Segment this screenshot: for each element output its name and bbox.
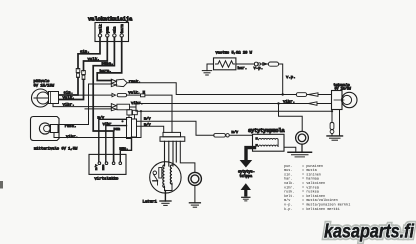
svg-text:valk: valk (98, 24, 103, 33)
wire laturi to ground (164, 191, 166, 202)
svg-text:päävalo: päävalo (34, 79, 51, 84)
ground at spark plug (242, 197, 250, 201)
wire puna. from switch t3 down to virtalukko (93, 37, 114, 161)
scan mark left edge (0, 181, 3, 189)
svg-text:m/v: m/v (144, 122, 151, 127)
svg-text:valokatkaisija: valokatkaisija (88, 16, 133, 23)
junction dot m/v (121, 120, 123, 122)
bullet connector on sin wire (76, 69, 80, 78)
wire harm. from switch t4 to junction connector (97, 37, 122, 80)
wire rusk. from mittarivalo up to junction connector (58, 84, 111, 125)
terminal 1 of valokatkaisija (98, 24, 103, 37)
svg-text:rusk.: rusk. (129, 79, 141, 84)
svg-text:vastus 5,9Ω 20 W: vastus 5,9Ω 20 W (216, 51, 253, 55)
svg-text:pun: pun (114, 128, 121, 132)
ground wire line3 to right (137, 110, 332, 112)
svg-text:= keltainen merkki: = keltainen merkki (302, 207, 340, 212)
svg-text:kasaparts.fi: kasaparts.fi (324, 222, 415, 243)
wire valk. from switch t2 to headlight (84, 37, 108, 70)
svg-text:har.: har. (238, 66, 248, 71)
svg-text:6V 15/15W: 6V 15/15W (34, 84, 55, 89)
spark plug arrow up (241, 183, 251, 190)
junction dot line3 takavalo (331, 110, 333, 112)
ground at laturi (160, 201, 171, 205)
svg-text:= ruskea: = ruskea (302, 190, 319, 195)
svg-text:puna.: puna. (102, 63, 114, 67)
connector arrow vihr takavalo (309, 102, 318, 106)
tail light takavalo (332, 83, 357, 110)
light switch box valokatkaisija (88, 16, 133, 42)
wire resistor to ground (207, 64, 214, 71)
wire takavalo to ground line (331, 110, 333, 123)
wire kill switch to ground (194, 185, 196, 202)
wire laturi to kill switch 1 (180, 141, 195, 172)
svg-text:Laturi: Laturi (143, 200, 158, 205)
generator laturi (143, 162, 182, 205)
svg-text:harm: harm (120, 24, 125, 33)
coil 1 inside laturi (163, 165, 165, 187)
junction connector rusk row (111, 79, 127, 86)
ignition switch virtalukko (89, 154, 126, 181)
svg-text:vihr.: vihr. (284, 185, 295, 190)
svg-text:m/v: m/v (144, 116, 151, 121)
svg-text:sin.: sin. (64, 91, 74, 96)
svg-text:k-p.: k-p. (284, 207, 292, 212)
watermark kasaparts.fi (324, 222, 415, 243)
svg-text:m/v: m/v (232, 130, 239, 135)
second vihr input stub (85, 108, 111, 110)
connector block to virtalukko (127, 115, 137, 139)
generator connector bar (160, 132, 185, 141)
wire m/v2 from block to generator bar (137, 126, 164, 132)
svg-text:tulppa: tulppa (240, 174, 253, 179)
svg-text:sin.: sin. (80, 50, 90, 55)
resistor vastus (214, 51, 253, 70)
bullet connector m/v at coil (214, 134, 230, 138)
svg-text:vihr.: vihr. (63, 103, 75, 108)
svg-text:vihr: vihr (103, 122, 112, 127)
coil 2 inside laturi (170, 165, 172, 184)
svg-text:= musta/punaisen merkki: = musta/punaisen merkki (302, 203, 350, 208)
ground at kill switch (189, 203, 200, 207)
svg-text:m/v: m/v (284, 198, 290, 203)
junction dot v.p. (282, 93, 284, 95)
wire vihr row output (130, 106, 137, 108)
wire valk E to generator bar (127, 94, 141, 96)
svg-text:= vihreä: = vihreä (302, 185, 319, 190)
svg-text:v.p.: v.p. (286, 76, 296, 80)
svg-text:= keltainen: = keltainen (302, 194, 325, 199)
wire vihr. from headlight to connector row (53, 104, 111, 107)
bullet connector at takavalo ground (330, 123, 334, 134)
wire m/v from block to virtalukko t1 (99, 119, 127, 161)
HT lead thick elbow to spark plug (246, 148, 255, 161)
junction dot vihr mittarivalo (140, 110, 142, 112)
svg-text:v-p.: v-p. (254, 67, 264, 71)
spark plug arrow down (240, 160, 253, 168)
wire vihr. from mittarivalo to right (54, 111, 141, 137)
bullet connector big (268, 62, 278, 66)
svg-text:valk.: valk. (63, 96, 75, 101)
bullet connector on valk wire (82, 71, 86, 80)
svg-text:sytytyspuola: sytytyspuola (248, 128, 285, 134)
wire har. from resistor (236, 63, 255, 65)
wire vihr. to takavalo (136, 103, 309, 105)
headlight paavalo (32, 79, 59, 107)
svg-text:mus.: mus. (120, 147, 129, 151)
svg-text:sytytys-: sytytys- (238, 170, 255, 174)
wire takavalo t2 to ground (339, 110, 341, 136)
svg-text:m/v: m/v (98, 116, 105, 121)
svg-text:= valkoinen: = valkoinen (302, 181, 325, 186)
wire valk E input (78, 94, 112, 96)
kill switch right of coil (279, 104, 309, 153)
svg-text:har.: har. (284, 177, 292, 182)
svg-text:= sininen: = sininen (302, 172, 321, 177)
small connector block line3 (127, 110, 137, 115)
svg-text:harm.: harm. (100, 69, 112, 74)
wire rusk to tail light feed (127, 83, 296, 95)
wire sin. from switch t1 to headlight (78, 37, 100, 68)
terminal 3 of valokatkaisija (113, 27, 118, 38)
svg-text:mus: mus (102, 164, 105, 170)
wire vihr from block to virtalukko t2 (106, 126, 127, 162)
ground at resistor (202, 71, 211, 75)
ground at takavalo (327, 136, 343, 140)
svg-text:vihr.: vihr. (283, 99, 295, 104)
legend colour codes (284, 164, 350, 212)
instrument lamp mittarivalo (31, 117, 79, 152)
wire mus from block to virtalukko t4 (120, 137, 131, 162)
condenser inside laturi (159, 168, 162, 179)
junction dot puna/virtalukko (107, 118, 109, 120)
svg-text:valk.: valk. (88, 57, 100, 62)
wire into takavalo top (307, 94, 309, 96)
svg-text:m/v: m/v (94, 164, 98, 170)
connector vihr row (111, 104, 129, 111)
svg-text:valk.: valk. (284, 181, 295, 186)
wire coil secondary to ground bar (284, 147, 296, 152)
breaker points inside laturi (153, 171, 158, 185)
ignition coil sytytyspuola (248, 128, 285, 151)
svg-text:mittarivalo 6V 1,5W: mittarivalo 6V 1,5W (34, 147, 78, 152)
wire m/v from block to ignition coil (137, 121, 214, 135)
kill switch at laturi (188, 172, 201, 185)
svg-text:pun: pun (107, 27, 111, 33)
connector into takavalo top (296, 93, 318, 97)
svg-text:sin.: sin. (284, 172, 292, 177)
svg-text:virtalukko: virtalukko (94, 176, 119, 181)
bullet connector small (255, 62, 261, 66)
terminal 2 of valokatkaisija (106, 27, 111, 38)
svg-text:= musta/valkoinen: = musta/valkoinen (302, 198, 338, 203)
svg-text:sin: sin (113, 27, 118, 33)
terminal 4 of valokatkaisija (120, 24, 125, 37)
wire v.p. down to tail feed (262, 63, 269, 65)
ground bar right of coil (288, 152, 312, 157)
svg-text:kelt.: kelt. (284, 194, 295, 199)
svg-text:= harmaa: = harmaa (302, 177, 319, 182)
svg-text:rusk.: rusk. (65, 124, 77, 129)
svg-text:vihr.: vihr. (66, 134, 78, 139)
connector valk E row (112, 93, 145, 96)
svg-text:rusk.: rusk. (284, 190, 295, 195)
generator bar pins (165, 141, 177, 166)
svg-text:= punainen: = punainen (302, 164, 323, 169)
